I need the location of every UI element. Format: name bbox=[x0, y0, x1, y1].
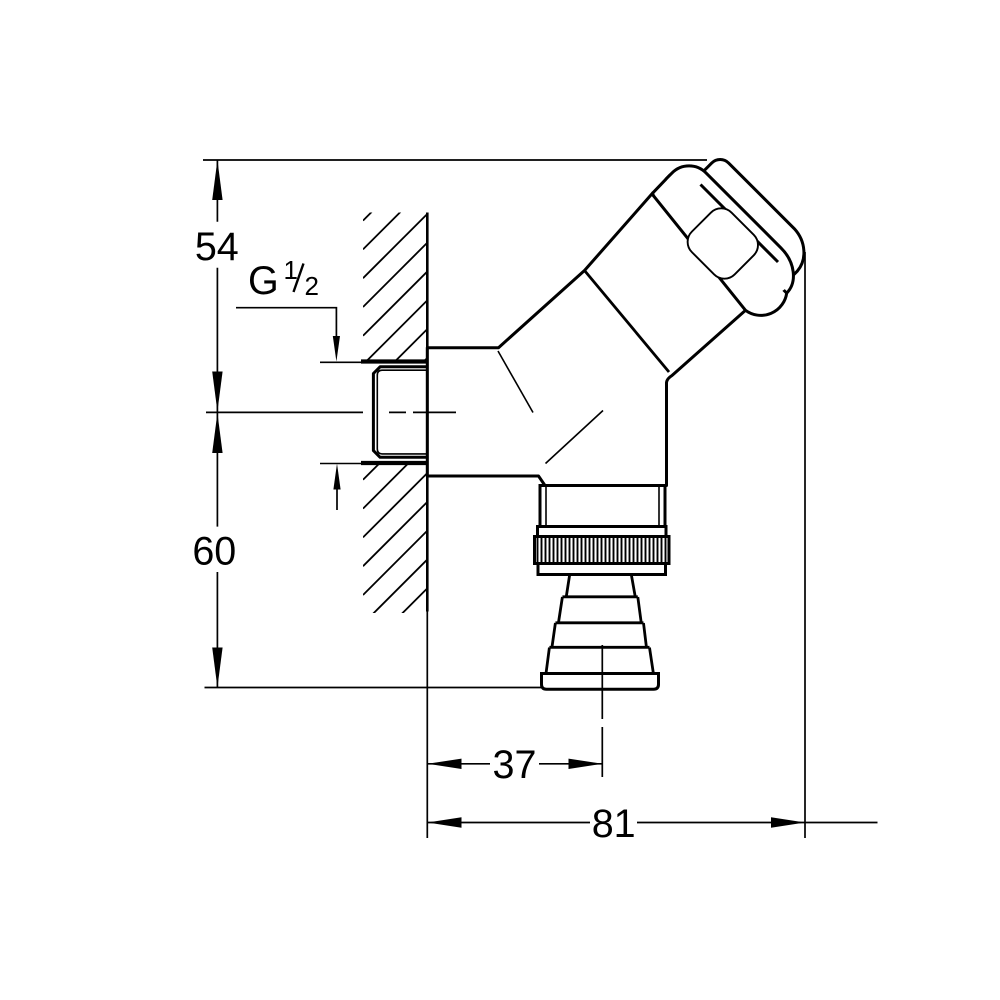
arrow down at bottom bbox=[212, 648, 222, 688]
inlet washer top bbox=[361, 359, 427, 363]
thin inner vertical right bbox=[658, 486, 660, 526]
G 1/2 leader line bbox=[236, 308, 336, 338]
thin inner vertical left bbox=[545, 486, 547, 526]
G 1/2 lower arrow stem bbox=[336, 487, 338, 510]
hose barb segment 3 bbox=[552, 623, 646, 647]
centerline of inlet (dash-dot) bbox=[206, 411, 456, 413]
body cone transition edge bbox=[585, 271, 670, 373]
dimension 54: top extension line bbox=[203, 159, 707, 161]
svg-text:37: 37 bbox=[493, 743, 537, 787]
barb shelf 1 bbox=[562, 595, 637, 598]
knurl lines bbox=[538, 538, 666, 562]
handle front skirt F bbox=[653, 176, 787, 316]
knurled nut bbox=[535, 537, 670, 564]
union flange bbox=[538, 527, 667, 537]
thread outer profile bbox=[373, 367, 427, 458]
inlet washer bottom bbox=[361, 461, 427, 465]
spout end cap bbox=[542, 674, 659, 690]
dimension 37 line bbox=[428, 763, 603, 765]
hose barb segment 1 bbox=[566, 575, 635, 597]
wall face line bbox=[426, 213, 429, 612]
thread root (thin) bbox=[377, 370, 427, 454]
lower nut band bbox=[538, 564, 666, 575]
handle crease edge bbox=[701, 185, 779, 263]
G 1/2 arrow down bbox=[333, 336, 340, 362]
thin extension bottom bbox=[320, 463, 361, 465]
right extension line bbox=[804, 252, 806, 838]
dimension 81 line bbox=[428, 822, 878, 824]
svg-text:60: 60 bbox=[192, 530, 236, 574]
G 1/2 lower arrow up bbox=[333, 464, 340, 490]
dimension 54/60: vertical dimension line bbox=[216, 160, 218, 688]
hose barb segment 4 bbox=[546, 648, 653, 674]
arrow down at centerline bbox=[212, 372, 222, 412]
hose barb segment 2 bbox=[559, 597, 642, 623]
handle knob D bbox=[682, 202, 764, 284]
svg-text:2: 2 bbox=[305, 271, 319, 301]
arrow up at centerline bbox=[212, 413, 222, 453]
dimension 60: bottom extension line bbox=[205, 687, 542, 689]
barb shelf 3 bbox=[549, 646, 649, 649]
middle plate M outline bbox=[666, 156, 807, 297]
arrow up at top bbox=[212, 160, 222, 200]
wall face extension line down bbox=[426, 612, 428, 839]
thin edge line lower bbox=[546, 411, 604, 464]
handle back plate B bbox=[655, 140, 823, 308]
svg-text:G: G bbox=[248, 259, 279, 303]
svg-text:1: 1 bbox=[284, 255, 298, 285]
thin edge line upper bbox=[498, 351, 533, 413]
svg-text:54: 54 bbox=[195, 225, 239, 269]
band bottom inset edge bbox=[546, 573, 659, 576]
valve body bbox=[427, 193, 759, 486]
handle middle plate M bbox=[655, 156, 803, 304]
outlet union upper section bbox=[540, 486, 665, 527]
barb shelf 2 bbox=[555, 621, 643, 624]
svg-text:81: 81 bbox=[592, 802, 636, 846]
thin extension top bbox=[320, 361, 361, 363]
spout centerline bbox=[601, 645, 603, 777]
